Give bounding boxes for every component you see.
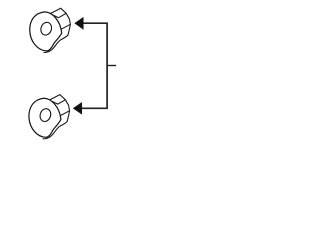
tweeter (top) [30, 8, 71, 52]
arrow (top) [75, 17, 84, 29]
wire bracket [82, 23, 107, 108]
tweeter (bottom) [29, 95, 70, 139]
arrow (bottom) [73, 102, 82, 114]
tick [107, 65, 116, 67]
